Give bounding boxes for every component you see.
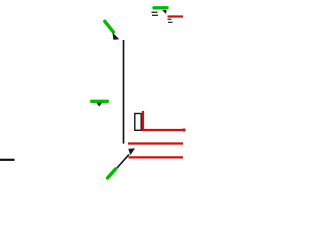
wire (117, 155, 130, 169)
wire (0, 159, 15, 161)
node E (92, 100, 108, 103)
wire (123, 40, 125, 144)
node B (112, 32, 119, 39)
node A (105, 21, 114, 32)
node C (154, 6, 167, 9)
wire (152, 14, 158, 16)
node H (108, 169, 116, 178)
node G (128, 148, 135, 155)
node D (162, 10, 167, 14)
node I (183, 129, 186, 132)
node F (96, 103, 102, 107)
capacitor C1 (135, 114, 141, 131)
resistor R0 (168, 15, 184, 17)
resistor R2 (128, 142, 183, 144)
wire (168, 18, 172, 20)
resistor R3 (129, 156, 184, 158)
wire (168, 21, 173, 23)
wire (152, 11, 158, 13)
resistor R1 (143, 111, 184, 130)
